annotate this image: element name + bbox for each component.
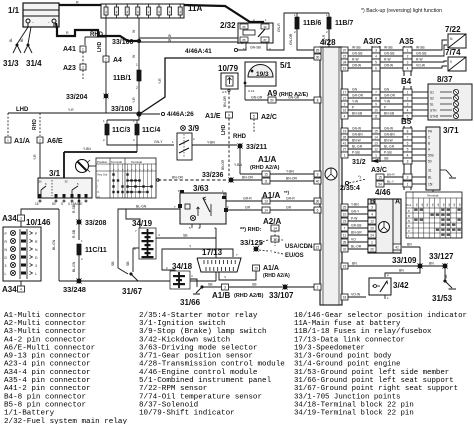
- svg-text:A1/E: A1/E: [205, 113, 221, 120]
- svg-text:A1/A: A1/A: [258, 155, 276, 164]
- svg-text:5: 5: [375, 60, 377, 64]
- svg-text:GR-SB: GR-SB: [351, 224, 362, 228]
- svg-text:1: 1: [136, 63, 138, 67]
- svg-text:33/108: 33/108: [111, 106, 133, 113]
- svg-text:R-W: R-W: [352, 58, 359, 62]
- svg-text:39: 39: [343, 240, 347, 244]
- svg-text:17: 17: [343, 90, 347, 94]
- svg-text:GR: GR: [245, 206, 251, 210]
- svg-text:11: 11: [374, 114, 378, 118]
- svg-text:BL-GR: BL-GR: [352, 145, 363, 149]
- svg-text:31/66-Ground point left seat s: 31/66-Ground point left seat support: [294, 377, 454, 385]
- svg-text:GN-W: GN-W: [384, 127, 394, 131]
- svg-text:SB: SB: [252, 283, 257, 287]
- svg-text:33/107: 33/107: [269, 291, 294, 300]
- svg-text:31: 31: [428, 169, 432, 173]
- svg-text:P-W: P-W: [351, 217, 358, 221]
- svg-text:7: 7: [375, 90, 377, 94]
- svg-text:37: 37: [343, 48, 347, 52]
- svg-text:1: 1: [407, 183, 409, 187]
- svg-text:GN-BN: GN-BN: [352, 133, 363, 137]
- svg-text:18: 18: [343, 295, 347, 299]
- svg-text:1/1-Battery: 1/1-Battery: [4, 410, 55, 418]
- svg-text:P-SB: P-SB: [384, 151, 392, 155]
- svg-text:EU/OS: EU/OS: [285, 253, 304, 259]
- svg-text:2: 2: [407, 54, 409, 58]
- svg-text:BN-OR: BN-OR: [172, 176, 183, 180]
- svg-text:2: 2: [39, 138, 41, 142]
- svg-text:II: II: [98, 190, 100, 194]
- svg-text:Terminal: Terminal: [111, 160, 122, 164]
- svg-text:SB: SB: [183, 234, 188, 238]
- svg-text:RHD: RHD: [233, 134, 247, 140]
- svg-text:8/37-Solenoid: 8/37-Solenoid: [139, 401, 198, 409]
- svg-text:BL-GN: BL-GN: [52, 239, 56, 250]
- svg-text:11B/7: 11B/7: [335, 20, 353, 27]
- svg-text:**) RHD:: **) RHD:: [240, 227, 262, 233]
- svg-text:5/1: 5/1: [280, 61, 292, 70]
- svg-text:6: 6: [317, 208, 319, 212]
- svg-text:8: 8: [317, 98, 319, 102]
- svg-text:4: 4: [20, 287, 22, 291]
- svg-text:30: 30: [38, 180, 42, 184]
- svg-text:Y-BN: Y-BN: [83, 147, 91, 151]
- svg-text:13: 13: [374, 141, 378, 145]
- svg-text:23: 23: [343, 219, 347, 223]
- svg-text:OR-W: OR-W: [352, 64, 362, 68]
- svg-text:A:6: A:6: [222, 90, 227, 94]
- svg-text:33/211: 33/211: [246, 144, 267, 151]
- svg-text:Y-R: Y-R: [132, 97, 136, 103]
- svg-text:BL-OR: BL-OR: [351, 245, 362, 249]
- svg-text:3: 3: [224, 285, 226, 289]
- svg-text:W-SB: W-SB: [352, 46, 361, 50]
- svg-text:A34: A34: [2, 285, 17, 294]
- svg-text:12: 12: [273, 238, 277, 242]
- svg-text:BL: BL: [20, 38, 24, 42]
- svg-text:2: 2: [82, 65, 84, 69]
- svg-text:GR-OR: GR-OR: [384, 94, 396, 98]
- svg-text:24: 24: [370, 233, 374, 237]
- svg-text:VO: VO: [351, 238, 356, 242]
- svg-text:B4-8 pin connector: B4-8 pin connector: [4, 393, 86, 401]
- svg-text:A4: A4: [113, 57, 122, 64]
- svg-text:Y-BN: Y-BN: [207, 141, 215, 145]
- svg-text:2/32: 2/32: [220, 21, 236, 30]
- svg-text:2: 2: [371, 240, 373, 244]
- svg-text:19/3: 19/3: [256, 71, 269, 78]
- svg-text:54: 54: [378, 183, 382, 187]
- svg-text:GN-W: GN-W: [352, 127, 362, 131]
- svg-text:33/1-705 Junction points: 33/1-705 Junction points: [294, 393, 400, 401]
- svg-text:STH5: STH5: [430, 115, 438, 119]
- svg-text:GN-SB: GN-SB: [416, 52, 427, 56]
- svg-text:BN: BN: [407, 243, 412, 247]
- svg-text:Y-W: Y-W: [384, 100, 391, 104]
- svg-text:15: 15: [374, 129, 378, 133]
- svg-text:3/63-Driving mode selector: 3/63-Driving mode selector: [139, 344, 257, 352]
- svg-text:R: R: [408, 214, 410, 218]
- svg-text:BL-GN: BL-GN: [136, 205, 147, 209]
- svg-text:3: 3: [407, 60, 409, 64]
- svg-text:4: 4: [407, 66, 409, 70]
- svg-text:R: R: [66, 31, 69, 35]
- svg-text:A1-Multi connector: A1-Multi connector: [4, 312, 86, 320]
- svg-text:33/127: 33/127: [429, 252, 454, 261]
- svg-text:31/2: 31/2: [352, 159, 366, 166]
- svg-text:S1: S1: [430, 91, 434, 95]
- svg-text:19: 19: [343, 129, 347, 133]
- svg-text:D: D: [408, 224, 410, 228]
- svg-text:33/204: 33/204: [66, 94, 88, 101]
- svg-text:3/9-Stop (Brake) lamp switch: 3/9-Stop (Brake) lamp switch: [139, 328, 267, 336]
- svg-text:BN-GR: BN-GR: [351, 231, 362, 235]
- svg-text:BL-GN: BL-GN: [72, 261, 76, 272]
- svg-text:A9-13 pin connector: A9-13 pin connector: [4, 353, 91, 361]
- svg-text:Y-BN: Y-BN: [234, 163, 242, 167]
- svg-text:19/3-Speedometer: 19/3-Speedometer: [294, 344, 365, 352]
- svg-text:A23-4 pin connector: A23-4 pin connector: [4, 361, 91, 369]
- svg-text:31/4-Ground point engine: 31/4-Ground point engine: [294, 361, 400, 369]
- svg-text:7/74: 7/74: [445, 48, 461, 57]
- svg-text:33/109: 33/109: [392, 256, 417, 265]
- svg-text:10/79-Shift indicator: 10/79-Shift indicator: [139, 410, 235, 418]
- svg-text:27: 27: [343, 147, 347, 151]
- svg-text:31/53: 31/53: [432, 294, 453, 303]
- svg-text:Position: Position: [97, 160, 108, 164]
- svg-text:17/13: 17/13: [202, 248, 223, 257]
- svg-text:12: 12: [370, 219, 374, 223]
- svg-text:4/28: 4/28: [320, 38, 336, 47]
- svg-text:OR-W: OR-W: [384, 64, 394, 68]
- svg-text:10/146-Gear selector position: 10/146-Gear selector position indicator: [294, 312, 467, 320]
- svg-text:A4-2 pin connector: A4-2 pin connector: [4, 336, 86, 344]
- svg-text:BN-R: BN-R: [387, 173, 395, 177]
- svg-text:22: 22: [343, 54, 347, 58]
- svg-text:25: 25: [343, 205, 347, 209]
- svg-text:A2/C: A2/C: [261, 114, 277, 121]
- svg-text:B4: B4: [401, 77, 412, 86]
- svg-text:RHD: RHD: [32, 119, 38, 130]
- svg-text:34: 34: [343, 60, 347, 64]
- svg-text:5/1-Combined instrument panel: 5/1-Combined instrument panel: [139, 377, 272, 385]
- svg-text:14: 14: [374, 135, 378, 139]
- svg-text:4: 4: [375, 54, 377, 58]
- svg-text:BL-Y: BL-Y: [387, 180, 394, 184]
- svg-text:GN: GN: [352, 88, 358, 92]
- svg-text:1: 1: [82, 47, 84, 51]
- svg-text:3/63: 3/63: [193, 184, 209, 193]
- svg-text:3/42-Kickdown switch: 3/42-Kickdown switch: [139, 336, 230, 344]
- svg-text:R-W: R-W: [416, 58, 423, 62]
- svg-text:26: 26: [370, 247, 374, 251]
- svg-text:3: 3: [5, 264, 7, 268]
- svg-text:3/42: 3/42: [393, 281, 409, 290]
- svg-text:L: L: [35, 272, 37, 276]
- svg-text:2/32-Fuel system main relay: 2/32-Fuel system main relay: [4, 418, 127, 424]
- svg-text:N: N: [408, 219, 410, 223]
- svg-text:40: 40: [316, 179, 320, 183]
- svg-text:11A: 11A: [188, 4, 202, 13]
- svg-text:3/71: 3/71: [443, 126, 459, 135]
- svg-text:9: 9: [375, 102, 377, 106]
- svg-text:5: 5: [407, 147, 409, 151]
- svg-text:1: 1: [407, 48, 409, 52]
- svg-text:A1/A: A1/A: [263, 265, 279, 272]
- svg-text:B5: B5: [401, 117, 412, 126]
- svg-text:**): **): [284, 190, 290, 195]
- svg-text:GN-R: GN-R: [277, 23, 281, 32]
- svg-text:Y-R: Y-R: [68, 108, 74, 112]
- svg-text:2: 2: [136, 86, 138, 90]
- svg-text:12: 12: [374, 147, 378, 151]
- svg-text:4/46A:26: 4/46A:26: [167, 111, 194, 118]
- svg-text:(RHD A2/A): (RHD A2/A): [250, 165, 280, 171]
- svg-text:*) Back-up (reversing) light f: *) Back-up (reversing) light function: [361, 8, 442, 14]
- svg-text:50S: 50S: [428, 154, 434, 158]
- svg-text:VO-W: VO-W: [416, 64, 426, 68]
- svg-text:2: 2: [344, 102, 346, 106]
- svg-text:LHD: LHD: [221, 124, 227, 135]
- svg-text:33/248: 33/248: [63, 285, 86, 294]
- svg-text:LHD: LHD: [16, 107, 29, 113]
- svg-text:B: B: [428, 142, 430, 146]
- svg-text:GN-GR: GN-GR: [251, 96, 263, 100]
- svg-text:10/79: 10/79: [218, 64, 239, 73]
- svg-text:8: 8: [407, 129, 409, 133]
- svg-text:GN-Y: GN-Y: [351, 210, 360, 214]
- svg-text:34/18-Terminal block 22 pin: 34/18-Terminal block 22 pin: [294, 401, 414, 409]
- svg-text:Y-BN: Y-BN: [286, 170, 294, 174]
- svg-text:GR-OR: GR-OR: [352, 94, 364, 98]
- svg-text:SB: SB: [208, 283, 213, 287]
- svg-text:9: 9: [228, 113, 230, 117]
- svg-text:GN-SB: GN-SB: [384, 52, 395, 56]
- svg-text:3: 3: [407, 102, 409, 106]
- svg-text:2: 2: [105, 57, 107, 61]
- svg-text:4/46-Engine control module: 4/46-Engine control module: [139, 369, 258, 377]
- svg-text:BN-SB: BN-SB: [352, 112, 363, 116]
- svg-text:31/4: 31/4: [26, 59, 42, 68]
- svg-text:3: 3: [371, 205, 373, 209]
- svg-text:15: 15: [343, 264, 347, 268]
- svg-text:R-SB: R-SB: [72, 204, 76, 213]
- svg-text:BL: BL: [9, 38, 13, 42]
- svg-text:13: 13: [264, 200, 268, 204]
- svg-text:R-SB: R-SB: [72, 229, 76, 238]
- svg-text:BN-OR: BN-OR: [242, 176, 253, 180]
- svg-text:A2-Multi connector: A2-Multi connector: [4, 320, 86, 328]
- svg-text:GN-OR: GN-OR: [289, 33, 293, 45]
- svg-text:19: 19: [343, 66, 347, 70]
- svg-text:11C/3: 11C/3: [112, 127, 130, 134]
- svg-text:GN-GR: GN-GR: [288, 96, 300, 100]
- svg-text:GN-BN: GN-BN: [384, 133, 395, 137]
- svg-text:A3/G: A3/G: [363, 37, 382, 46]
- svg-text:33/100: 33/100: [112, 39, 134, 46]
- svg-text:1: 1: [344, 153, 346, 157]
- svg-text:A41: A41: [63, 46, 76, 53]
- svg-text:GN-SB: GN-SB: [250, 46, 261, 50]
- svg-text:VO-W: VO-W: [351, 293, 361, 297]
- svg-text:(RHD A2/B): (RHD A2/B): [234, 293, 264, 299]
- svg-text:2/35:4: 2/35:4: [340, 185, 360, 192]
- svg-text:41: 41: [343, 141, 347, 145]
- svg-text:50: 50: [52, 202, 56, 206]
- svg-text:SB: SB: [444, 274, 448, 279]
- svg-text:34/19-Terminal block 22 pin: 34/19-Terminal block 22 pin: [294, 410, 414, 418]
- svg-text:L: L: [5, 272, 7, 276]
- svg-text:6: 6: [375, 66, 377, 70]
- svg-text:Terminal: Terminal: [131, 160, 142, 164]
- svg-text:SB: SB: [126, 261, 130, 266]
- svg-text:2: 2: [407, 176, 409, 180]
- svg-text:4/28-Transmission control modu: 4/28-Transmission control module: [139, 361, 285, 369]
- svg-text:3: 3: [407, 159, 409, 163]
- svg-text:Pos: Pos: [407, 203, 412, 207]
- svg-text:85: 85: [243, 38, 246, 42]
- svg-text:1: 1: [407, 90, 409, 94]
- svg-text:29: 29: [316, 48, 320, 52]
- svg-text:0: 0: [450, 60, 452, 64]
- svg-text:3: 3: [20, 216, 22, 220]
- svg-text:SL: SL: [430, 103, 434, 107]
- svg-text:11: 11: [343, 233, 347, 237]
- svg-text:3: 3: [35, 264, 37, 268]
- svg-text:3/71-Gear position sensor: 3/71-Gear position sensor: [139, 353, 253, 361]
- svg-text:3/9: 3/9: [188, 124, 200, 133]
- svg-text:4/46A:41: 4/46A:41: [185, 48, 212, 55]
- svg-text:STH: STH: [430, 109, 437, 113]
- svg-text:BN: BN: [399, 269, 404, 273]
- svg-text:34/19: 34/19: [132, 219, 153, 228]
- svg-text:87: 87: [264, 38, 267, 42]
- svg-text:7: 7: [407, 135, 409, 139]
- svg-text:GN: GN: [384, 88, 390, 92]
- svg-text:16: 16: [343, 108, 347, 112]
- svg-text:50: 50: [428, 160, 432, 164]
- svg-text:17/13-Data link connector: 17/13-Data link connector: [294, 336, 405, 344]
- svg-text:A34: A34: [2, 214, 17, 223]
- svg-text:C:12: C:12: [248, 89, 255, 93]
- svg-text:Key Out: Key Out: [98, 173, 108, 177]
- svg-text:11B/1: 11B/1: [113, 75, 131, 82]
- svg-text:4: 4: [371, 212, 373, 216]
- svg-text:4: 4: [344, 114, 346, 118]
- svg-text:A34-4 pin connector: A34-4 pin connector: [4, 369, 91, 377]
- svg-text:Y-R: Y-R: [158, 78, 162, 84]
- svg-text:1: 1: [7, 138, 9, 142]
- svg-text:21: 21: [343, 96, 347, 100]
- svg-text:BN-OR: BN-OR: [221, 159, 225, 170]
- svg-text:7/22: 7/22: [445, 25, 461, 34]
- svg-text:86: 86: [243, 25, 246, 29]
- svg-text:26: 26: [343, 135, 347, 139]
- svg-text:10/146: 10/146: [26, 218, 51, 227]
- svg-text:34/18: 34/18: [172, 262, 193, 271]
- svg-text:R: R: [76, 1, 79, 5]
- svg-text:10: 10: [343, 212, 347, 216]
- svg-text:III: III: [98, 195, 100, 199]
- svg-text:3/1: 3/1: [49, 169, 61, 178]
- svg-text:A23: A23: [63, 65, 76, 72]
- svg-text:8/37: 8/37: [437, 75, 453, 84]
- svg-text:4: 4: [407, 153, 409, 157]
- svg-text:W-SB: W-SB: [384, 46, 393, 50]
- svg-text:BN-W: BN-W: [384, 139, 394, 143]
- svg-text:Terminal: Terminal: [427, 194, 439, 198]
- svg-text:S2: S2: [430, 97, 434, 101]
- svg-text:10: 10: [374, 108, 378, 112]
- svg-text:LHD: LHD: [97, 41, 103, 52]
- svg-text:42: 42: [395, 246, 399, 250]
- svg-text:31/53-Ground point left side m: 31/53-Ground point left side member: [294, 369, 449, 377]
- svg-text:GR-R: GR-R: [243, 197, 252, 201]
- svg-text:31/3-Ground point body: 31/3-Ground point body: [294, 353, 392, 361]
- svg-text:S: S: [61, 202, 63, 206]
- svg-text:BN-SB: BN-SB: [384, 112, 395, 116]
- svg-text:1/1: 1/1: [8, 6, 20, 15]
- svg-text:R-W: R-W: [384, 58, 391, 62]
- svg-text:B5-8 pin connector: B5-8 pin connector: [4, 401, 86, 409]
- svg-text:15: 15: [378, 176, 382, 180]
- svg-text:11A-Main fuse at battery: 11A-Main fuse at battery: [294, 320, 401, 328]
- svg-text:Y-W: Y-W: [352, 100, 359, 104]
- svg-text:(RHD A2/A): (RHD A2/A): [263, 273, 290, 279]
- svg-text:11C/11: 11C/11: [85, 247, 107, 254]
- svg-text:32: 32: [343, 247, 347, 251]
- svg-text:6: 6: [407, 141, 409, 145]
- svg-text:A1/B: A1/B: [212, 291, 230, 300]
- svg-text:30: 30: [316, 199, 320, 203]
- svg-text:A3/C: A3/C: [371, 167, 387, 174]
- svg-text:BN: BN: [429, 262, 434, 266]
- svg-text:A35-4 pin connector: A35-4 pin connector: [4, 377, 91, 385]
- svg-text:A41-2 pin connector: A41-2 pin connector: [4, 385, 91, 393]
- svg-text:2/35:4-Starter motor relay: 2/35:4-Starter motor relay: [139, 312, 258, 320]
- svg-text:BN-W: BN-W: [352, 139, 362, 143]
- svg-text:GR-R: GR-R: [286, 197, 295, 201]
- svg-text:14: 14: [264, 209, 268, 213]
- svg-text:P-SB: P-SB: [352, 151, 360, 155]
- svg-text:31/67-Ground point right seat: 31/67-Ground point right seat support: [294, 385, 458, 393]
- svg-text:11C/4: 11C/4: [142, 127, 160, 134]
- svg-text:15I: 15I: [428, 183, 433, 187]
- svg-text:31/66: 31/66: [180, 298, 201, 307]
- svg-text:20: 20: [370, 226, 374, 230]
- svg-text:15: 15: [35, 202, 39, 206]
- svg-text:8: 8: [375, 96, 377, 100]
- svg-text:11: 11: [264, 180, 268, 184]
- svg-text:31/3: 31/3: [3, 59, 19, 68]
- svg-text:A6/E: A6/E: [47, 138, 63, 145]
- svg-text:7: 7: [344, 226, 346, 230]
- svg-text:A3-Multi connector: A3-Multi connector: [4, 328, 86, 336]
- svg-text:5: 5: [253, 114, 255, 118]
- svg-text:15: 15: [264, 173, 268, 177]
- svg-text:BL-GR: BL-GR: [384, 145, 395, 149]
- svg-text:30: 30: [316, 55, 320, 59]
- svg-text:3: 3: [375, 48, 377, 52]
- svg-text:BN: BN: [352, 262, 357, 266]
- svg-text:A1/A: A1/A: [14, 138, 30, 145]
- svg-text:33/208: 33/208: [85, 220, 107, 227]
- svg-text:1: 1: [375, 153, 377, 157]
- svg-text:30: 30: [64, 180, 68, 184]
- svg-text:14: 14: [273, 227, 277, 231]
- svg-text:W-SB: W-SB: [416, 46, 425, 50]
- svg-text:30: 30: [264, 25, 267, 29]
